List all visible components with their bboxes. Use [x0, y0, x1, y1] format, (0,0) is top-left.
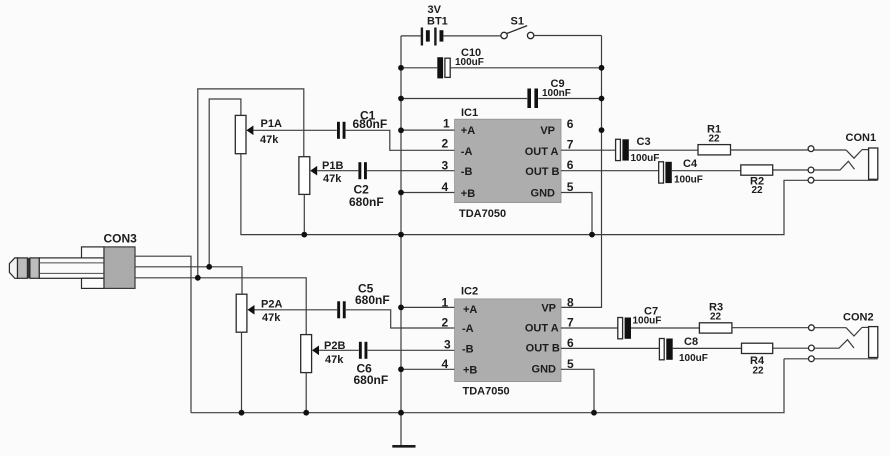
svg-text:OUT A: OUT A: [525, 323, 559, 335]
svg-text:5: 5: [567, 180, 574, 194]
svg-text:47k: 47k: [323, 173, 342, 185]
svg-text:3: 3: [442, 158, 449, 172]
svg-text:OUT B: OUT B: [525, 166, 559, 178]
svg-text:IC2: IC2: [461, 286, 478, 298]
svg-text:4: 4: [442, 357, 449, 371]
svg-text:S1: S1: [511, 16, 524, 28]
svg-text:100uF: 100uF: [455, 57, 484, 68]
svg-text:680nF: 680nF: [353, 117, 388, 131]
svg-text:22: 22: [753, 366, 765, 377]
svg-text:+A: +A: [461, 125, 475, 137]
svg-text:VP: VP: [541, 303, 556, 315]
svg-text:7: 7: [567, 138, 574, 152]
svg-text:-B: -B: [461, 166, 473, 178]
svg-text:680nF: 680nF: [355, 293, 390, 307]
svg-text:100uF: 100uF: [633, 316, 662, 327]
svg-text:6: 6: [567, 158, 574, 172]
svg-text:680nF: 680nF: [354, 373, 389, 387]
svg-text:1: 1: [442, 296, 449, 310]
svg-text:OUT A: OUT A: [525, 146, 559, 158]
svg-text:2: 2: [442, 316, 449, 330]
svg-text:47k: 47k: [262, 312, 281, 324]
svg-text:-A: -A: [461, 146, 473, 158]
svg-text:TDA7050: TDA7050: [463, 386, 510, 398]
svg-text:+B: +B: [463, 364, 477, 376]
svg-text:P2A: P2A: [261, 299, 282, 311]
svg-text:3V: 3V: [428, 4, 442, 16]
svg-text:TDA7050: TDA7050: [459, 208, 506, 220]
svg-text:100uF: 100uF: [679, 353, 708, 364]
svg-text:22: 22: [710, 312, 722, 323]
svg-text:6: 6: [567, 117, 574, 131]
svg-text:BT1: BT1: [427, 16, 448, 28]
svg-text:47k: 47k: [325, 354, 344, 366]
svg-text:22: 22: [709, 134, 721, 145]
svg-text:IC1: IC1: [461, 107, 478, 119]
svg-text:-B: -B: [462, 343, 474, 355]
svg-text:4: 4: [442, 180, 449, 194]
svg-text:+B: +B: [461, 188, 475, 200]
svg-text:100nF: 100nF: [542, 88, 571, 99]
svg-text:47k: 47k: [260, 134, 279, 146]
svg-text:CON2: CON2: [843, 312, 874, 324]
svg-text:6: 6: [567, 336, 574, 350]
svg-text:3: 3: [444, 338, 451, 352]
svg-text:22: 22: [752, 185, 764, 196]
svg-text:C3: C3: [637, 136, 651, 148]
svg-text:100uF: 100uF: [631, 153, 660, 164]
svg-text:OUT B: OUT B: [526, 343, 560, 355]
svg-text:P1B: P1B: [322, 160, 343, 172]
svg-text:C4: C4: [683, 158, 698, 170]
svg-text:C8: C8: [684, 336, 698, 348]
svg-text:GND: GND: [531, 188, 556, 200]
svg-text:1: 1: [443, 116, 450, 130]
svg-text:8: 8: [567, 295, 574, 309]
svg-text:VP: VP: [540, 125, 555, 137]
svg-text:CON1: CON1: [846, 132, 877, 144]
svg-text:GND: GND: [532, 364, 557, 376]
svg-text:2: 2: [442, 137, 449, 151]
svg-text:100uF: 100uF: [674, 175, 703, 186]
svg-text:CON3: CON3: [104, 232, 138, 246]
svg-text:7: 7: [567, 316, 574, 330]
svg-text:-A: -A: [462, 323, 474, 335]
svg-text:680nF: 680nF: [349, 195, 384, 209]
svg-text:+A: +A: [463, 304, 477, 316]
svg-text:5: 5: [567, 357, 574, 371]
svg-text:P2B: P2B: [324, 340, 345, 352]
svg-text:P1A: P1A: [261, 118, 282, 130]
